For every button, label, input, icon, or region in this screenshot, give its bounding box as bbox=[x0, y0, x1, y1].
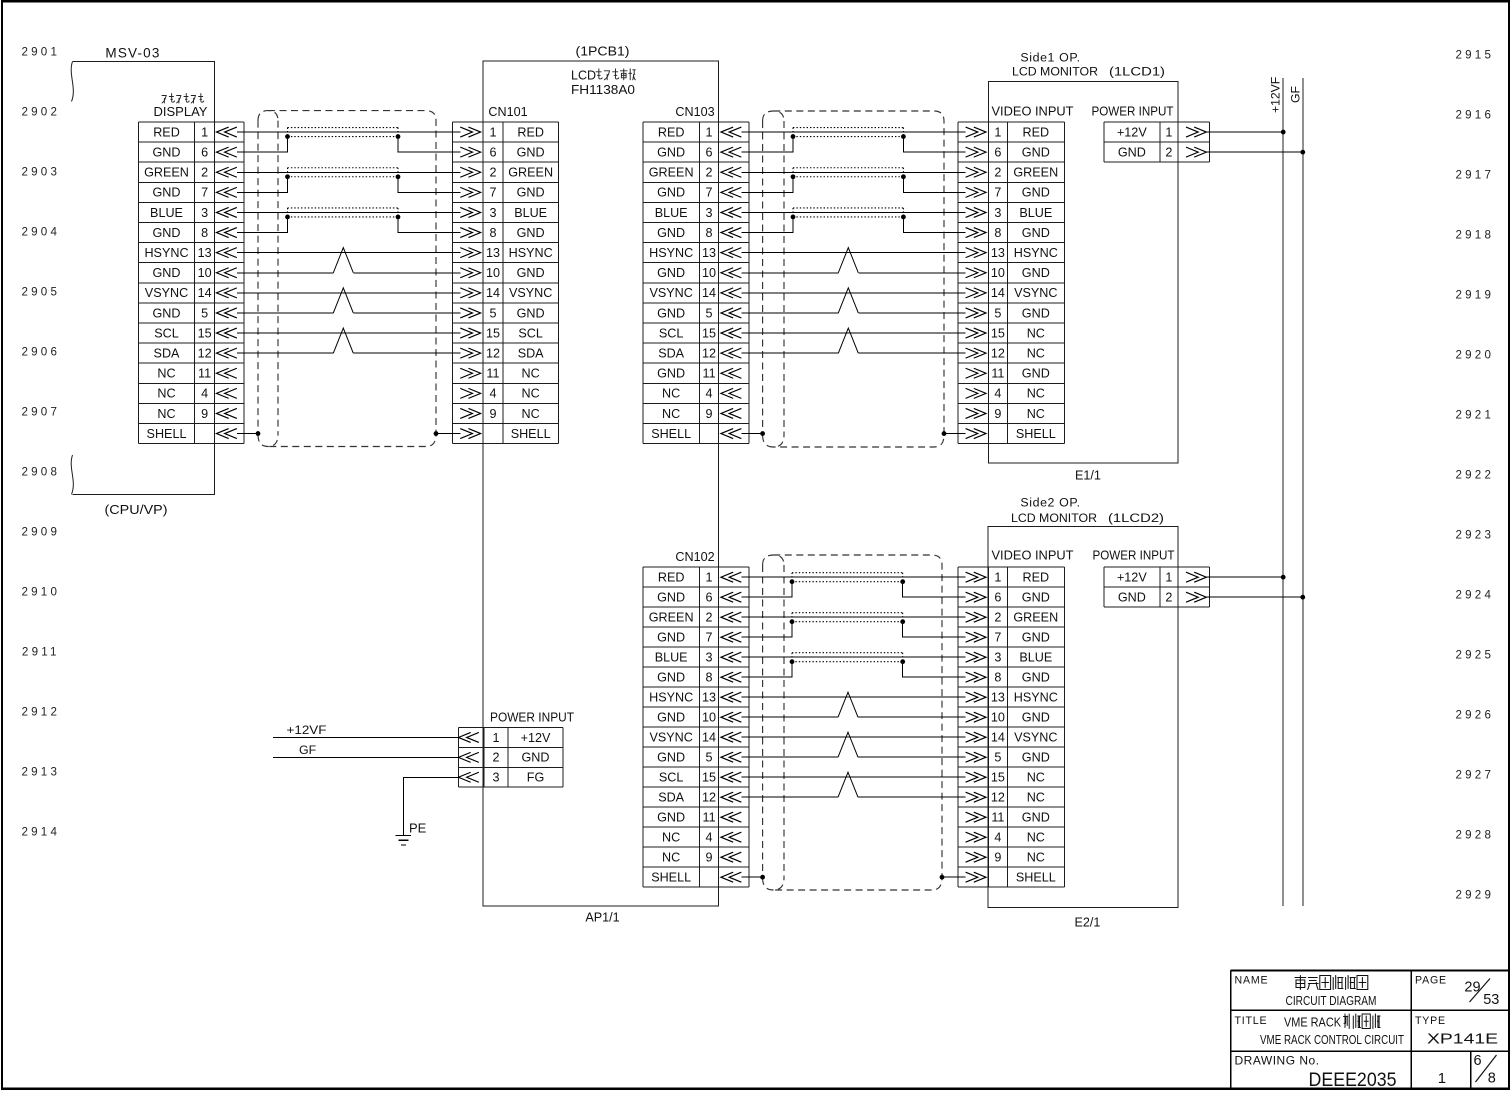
svg-text:2: 2 bbox=[201, 166, 208, 180]
svg-text:VIDEO INPUT: VIDEO INPUT bbox=[992, 104, 1074, 118]
svg-text:VSYNC: VSYNC bbox=[649, 286, 692, 300]
wire SHELL CN102-1LCD2 shell right bbox=[942, 876, 966, 878]
junction GREEN pair CN103-1LCD1 shield right bbox=[901, 174, 906, 179]
svg-text:2903: 2903 bbox=[22, 166, 61, 179]
svg-text:SHELL: SHELL bbox=[147, 427, 187, 441]
svg-text:GF: GF bbox=[299, 743, 317, 757]
svg-text:2904: 2904 bbox=[22, 226, 61, 239]
wire GREEN pair DISPLAY-CN101 signal bbox=[237, 171, 461, 173]
svg-text:7: 7 bbox=[201, 186, 208, 200]
junction BLUE pair CN102-1LCD2 shield left bbox=[790, 659, 795, 664]
svg-text:SHELL: SHELL bbox=[651, 427, 691, 441]
svg-text:12: 12 bbox=[486, 346, 500, 360]
junction GREEN pair CN102-1LCD2 shield right bbox=[900, 619, 905, 624]
junction BLUE pair DISPLAY-CN101 shield right bbox=[396, 215, 401, 220]
svg-text:GND: GND bbox=[517, 145, 545, 159]
junction SHELL CN102-1LCD2 shell-shield left bbox=[760, 875, 765, 880]
junction BLUE pair CN103-1LCD1 shield left bbox=[791, 215, 796, 220]
svg-text:2: 2 bbox=[1165, 145, 1172, 159]
svg-text:VSYNC: VSYNC bbox=[509, 286, 552, 300]
svg-text:GREEN: GREEN bbox=[649, 166, 694, 180]
svg-text:7: 7 bbox=[489, 186, 496, 200]
wire SCL/SDA pair CN103-1LCD1 signal bbox=[741, 332, 965, 334]
svg-text:AP1/1: AP1/1 bbox=[585, 911, 619, 925]
wire VSYNC pair CN102-1LCD2 return with twist symbol bbox=[741, 756, 965, 758]
svg-text:6: 6 bbox=[201, 145, 208, 159]
svg-text:8: 8 bbox=[994, 226, 1001, 240]
wire BLUE pair DISPLAY-CN101 signal bbox=[237, 211, 461, 213]
svg-text:11: 11 bbox=[991, 811, 1004, 825]
wire +12VF into AP1 pin1 bbox=[273, 736, 459, 738]
wire SHELL DISPLAY-CN101 shell left bbox=[237, 433, 258, 435]
svg-text:9: 9 bbox=[706, 407, 713, 421]
svg-text:13: 13 bbox=[486, 246, 500, 260]
connector POWER INPUT on 1LCD2 bbox=[1104, 567, 1210, 607]
svg-text:GREEN: GREEN bbox=[649, 611, 694, 625]
svg-text:GND: GND bbox=[1118, 145, 1146, 159]
twisted pair sheath GREEN pair DISPLAY-CN101 bbox=[288, 168, 399, 177]
connector CN102 on 1PCB1 bbox=[643, 567, 749, 887]
wire GND E2 to GF bus bbox=[1206, 596, 1302, 598]
twisted pair sheath RED pair DISPLAY-CN101 bbox=[288, 128, 399, 137]
svg-text:7: 7 bbox=[706, 186, 713, 200]
svg-text:HSYNC: HSYNC bbox=[144, 246, 188, 260]
wire HSYNC pair CN103-1LCD1 return with twist symbol bbox=[741, 272, 965, 274]
svg-text:NC: NC bbox=[522, 387, 540, 401]
wire RED pair CN103-1LCD1 return (GND) bbox=[741, 137, 965, 153]
svg-text:1: 1 bbox=[1165, 125, 1172, 139]
svg-text:10: 10 bbox=[702, 711, 716, 725]
svg-text:HSYNC: HSYNC bbox=[1014, 246, 1058, 260]
svg-text:NAME: NAME bbox=[1235, 974, 1269, 986]
twisted pair sheath BLUE pair CN102-1LCD2 bbox=[792, 653, 903, 662]
svg-text:GND: GND bbox=[1022, 631, 1050, 645]
svg-text:12: 12 bbox=[702, 791, 716, 805]
svg-text:NC: NC bbox=[522, 407, 540, 421]
svg-text:2901: 2901 bbox=[22, 46, 61, 59]
svg-text:2915: 2915 bbox=[1456, 49, 1495, 62]
ground symbol PE bbox=[396, 835, 412, 845]
svg-text:2906: 2906 bbox=[22, 346, 61, 359]
svg-text:2922: 2922 bbox=[1456, 469, 1495, 482]
cable shield CN102-1LCD2 bbox=[763, 555, 942, 890]
svg-text:2909: 2909 bbox=[22, 526, 61, 539]
svg-text:GND: GND bbox=[1022, 306, 1050, 320]
svg-text:1: 1 bbox=[489, 125, 496, 139]
wire SCL/SDA pair DISPLAY-CN101 signal bbox=[237, 332, 461, 334]
svg-text:NC: NC bbox=[157, 407, 175, 421]
junction BLUE pair CN103-1LCD1 shield right bbox=[901, 215, 906, 220]
svg-text:3: 3 bbox=[201, 206, 208, 220]
svg-text:5: 5 bbox=[201, 306, 208, 320]
wire VSYNC pair CN102-1LCD2 signal bbox=[741, 736, 965, 738]
wire HSYNC pair CN103-1LCD1 signal bbox=[741, 252, 965, 254]
svg-text:6: 6 bbox=[994, 145, 1001, 159]
wire SCL/SDA pair CN102-1LCD2 return with twist symbol bbox=[741, 796, 965, 798]
svg-text:BLUE: BLUE bbox=[150, 206, 183, 220]
wire SHELL CN102-1LCD2 shell left bbox=[741, 876, 762, 878]
svg-text:15: 15 bbox=[991, 771, 1005, 785]
svg-text:PAGE: PAGE bbox=[1415, 974, 1447, 986]
svg-text:2926: 2926 bbox=[1456, 709, 1495, 722]
svg-text:NC: NC bbox=[1027, 387, 1045, 401]
svg-text:2914: 2914 bbox=[22, 826, 61, 839]
svg-text:GND: GND bbox=[517, 226, 545, 240]
svg-text:2: 2 bbox=[489, 166, 496, 180]
svg-text:2929: 2929 bbox=[1456, 889, 1495, 902]
svg-text:2905: 2905 bbox=[22, 286, 61, 299]
wire HSYNC pair DISPLAY-CN101 return with twist symbol bbox=[237, 272, 461, 274]
wire RED pair DISPLAY-CN101 return (GND) bbox=[237, 137, 461, 153]
svg-text:BLUE: BLUE bbox=[1019, 206, 1052, 220]
twisted pair sheath BLUE pair DISPLAY-CN101 bbox=[288, 208, 399, 217]
svg-text:POWER INPUT: POWER INPUT bbox=[1093, 549, 1175, 563]
wire HSYNC pair CN102-1LCD2 return with twist symbol bbox=[741, 716, 965, 718]
svg-text:5: 5 bbox=[994, 306, 1001, 320]
svg-text:10: 10 bbox=[702, 266, 716, 280]
wire SCL/SDA pair CN102-1LCD2 signal bbox=[741, 776, 965, 778]
svg-text:NC: NC bbox=[1027, 791, 1045, 805]
svg-text:NC: NC bbox=[1027, 407, 1045, 421]
wire SCL/SDA pair CN103-1LCD1 return with twist symbol bbox=[741, 352, 965, 354]
svg-text:VSYNC: VSYNC bbox=[1014, 286, 1057, 300]
svg-text:6: 6 bbox=[706, 145, 713, 159]
svg-text:2924: 2924 bbox=[1456, 589, 1495, 602]
svg-text:NC: NC bbox=[1027, 326, 1045, 340]
svg-text:GND: GND bbox=[1022, 226, 1050, 240]
svg-text:LCD MONITOR: LCD MONITOR bbox=[1011, 511, 1097, 525]
svg-text:13: 13 bbox=[702, 691, 716, 705]
cable shield DISPLAY-CN101 bbox=[258, 111, 436, 447]
svg-text:9: 9 bbox=[489, 407, 496, 421]
svg-text:GND: GND bbox=[522, 751, 550, 765]
svg-text:2916: 2916 bbox=[1456, 109, 1495, 122]
junction GREEN pair CN103-1LCD1 shield left bbox=[791, 174, 796, 179]
svg-text:2908: 2908 bbox=[22, 466, 61, 479]
connector POWER INPUT on 1PCB1 (AP1/1) bbox=[458, 728, 563, 788]
svg-text:2918: 2918 bbox=[1456, 229, 1495, 242]
svg-text:SHELL: SHELL bbox=[511, 427, 551, 441]
wire BLUE pair CN102-1LCD2 return (GND) bbox=[741, 662, 965, 678]
svg-text:6: 6 bbox=[1473, 1053, 1481, 1069]
svg-text:2: 2 bbox=[706, 166, 713, 180]
svg-text:SDA: SDA bbox=[518, 346, 544, 360]
svg-text:NC: NC bbox=[1027, 771, 1045, 785]
svg-text:11: 11 bbox=[991, 367, 1004, 381]
svg-text:HSYNC: HSYNC bbox=[509, 246, 553, 260]
svg-text:14: 14 bbox=[198, 286, 212, 300]
svg-text:GREEN: GREEN bbox=[144, 166, 189, 180]
connector POWER INPUT on 1LCD1 bbox=[1104, 122, 1210, 162]
wire BLUE pair CN103-1LCD1 signal bbox=[741, 211, 965, 213]
svg-text:NC: NC bbox=[662, 851, 680, 865]
svg-text:15: 15 bbox=[991, 326, 1005, 340]
wire VSYNC pair DISPLAY-CN101 return with twist symbol bbox=[237, 312, 461, 314]
svg-text:VIDEO INPUT: VIDEO INPUT bbox=[992, 549, 1074, 563]
svg-text:2928: 2928 bbox=[1456, 829, 1495, 842]
junction BLUE pair CN102-1LCD2 shield right bbox=[900, 659, 905, 664]
svg-text:MSV-03: MSV-03 bbox=[105, 46, 160, 61]
svg-text:(1LCD1): (1LCD1) bbox=[1109, 65, 1165, 79]
junction RED pair DISPLAY-CN101 shield right bbox=[396, 134, 401, 139]
svg-text:NC: NC bbox=[157, 367, 175, 381]
svg-text:5: 5 bbox=[489, 306, 496, 320]
svg-text:NC: NC bbox=[1027, 851, 1045, 865]
wire +12V E1 to +12VF bus bbox=[1206, 131, 1283, 133]
svg-text:POWER INPUT: POWER INPUT bbox=[490, 711, 574, 725]
svg-text:GREEN: GREEN bbox=[1013, 166, 1058, 180]
svg-text:8: 8 bbox=[706, 226, 713, 240]
break symbol top-left of MSV-03 bbox=[71, 62, 73, 102]
svg-text:GND: GND bbox=[1118, 591, 1146, 605]
svg-text:11: 11 bbox=[703, 811, 716, 825]
svg-text:10: 10 bbox=[486, 266, 500, 280]
junction SHELL CN103-1LCD1 shell-shield right bbox=[942, 431, 947, 436]
svg-text:GND: GND bbox=[657, 751, 685, 765]
wire GREEN pair CN103-1LCD1 signal bbox=[741, 171, 965, 173]
svg-text:FH1138A0: FH1138A0 bbox=[571, 83, 635, 97]
svg-text:GND: GND bbox=[153, 186, 181, 200]
svg-text:RED: RED bbox=[658, 571, 685, 585]
net GF vertical bus bbox=[1302, 78, 1304, 906]
svg-text:SHELL: SHELL bbox=[1016, 427, 1056, 441]
svg-text:7: 7 bbox=[994, 631, 1001, 645]
svg-text:GND: GND bbox=[657, 631, 685, 645]
svg-text:NC: NC bbox=[662, 407, 680, 421]
svg-text:10: 10 bbox=[198, 266, 212, 280]
junction RED pair DISPLAY-CN101 shield left bbox=[285, 134, 290, 139]
svg-text:SDA: SDA bbox=[658, 791, 684, 805]
svg-text:2919: 2919 bbox=[1456, 289, 1495, 302]
svg-text:2: 2 bbox=[493, 751, 500, 765]
svg-text:GND: GND bbox=[517, 306, 545, 320]
wire BLUE pair CN102-1LCD2 signal bbox=[741, 656, 965, 658]
wire RED pair CN103-1LCD1 signal bbox=[741, 131, 965, 133]
svg-text:XP141E: XP141E bbox=[1427, 1032, 1498, 1048]
svg-text:GND: GND bbox=[657, 266, 685, 280]
wire GREEN pair CN102-1LCD2 signal bbox=[741, 616, 965, 618]
svg-text:GND: GND bbox=[657, 367, 685, 381]
twisted pair sheath GREEN pair CN103-1LCD1 bbox=[793, 168, 903, 177]
svg-text:NC: NC bbox=[1027, 346, 1045, 360]
svg-text:GND: GND bbox=[657, 186, 685, 200]
svg-text:(1LCD2): (1LCD2) bbox=[1108, 511, 1164, 525]
svg-text:+12V: +12V bbox=[1117, 571, 1147, 585]
svg-text:15: 15 bbox=[702, 771, 716, 785]
svg-text:GND: GND bbox=[657, 226, 685, 240]
svg-text:GREEN: GREEN bbox=[1013, 611, 1058, 625]
svg-text:E2/1: E2/1 bbox=[1075, 916, 1101, 930]
net +12VF vertical bus bbox=[1282, 78, 1284, 906]
wire RED pair CN102-1LCD2 return (GND) bbox=[741, 582, 965, 598]
svg-text:GND: GND bbox=[657, 811, 685, 825]
svg-text:15: 15 bbox=[486, 326, 500, 340]
svg-text:NC: NC bbox=[157, 387, 175, 401]
svg-text:2920: 2920 bbox=[1456, 349, 1495, 362]
junction RED pair CN103-1LCD1 shield left bbox=[791, 134, 796, 139]
svg-text:BLUE: BLUE bbox=[514, 206, 547, 220]
svg-text:VSYNC: VSYNC bbox=[145, 286, 188, 300]
wire GREEN pair CN103-1LCD1 return (GND) bbox=[741, 177, 965, 193]
svg-text:1: 1 bbox=[706, 571, 713, 585]
svg-text:4: 4 bbox=[489, 387, 496, 401]
svg-text:13: 13 bbox=[702, 246, 716, 260]
wire VSYNC pair CN103-1LCD1 signal bbox=[741, 292, 965, 294]
svg-text:RED: RED bbox=[1023, 571, 1050, 585]
svg-text:FG: FG bbox=[527, 771, 545, 785]
svg-text:2911: 2911 bbox=[22, 646, 60, 659]
device MSV-03 (CPU/VP) box bbox=[73, 62, 215, 495]
svg-text:GND: GND bbox=[657, 591, 685, 605]
svg-text:6: 6 bbox=[994, 591, 1001, 605]
board (1PCB1) LCD monitor PCB box bbox=[483, 61, 719, 906]
junction +12VF / E2 bbox=[1281, 575, 1286, 580]
junction SHELL DISPLAY-CN101 shell-shield right bbox=[434, 431, 439, 436]
label display (katakana) bbox=[162, 94, 204, 104]
svg-text:GND: GND bbox=[1022, 186, 1050, 200]
svg-text:12: 12 bbox=[991, 791, 1005, 805]
svg-text:GND: GND bbox=[1022, 367, 1050, 381]
wire GREEN pair DISPLAY-CN101 return (GND) bbox=[237, 177, 461, 193]
junction GF / E1 bbox=[1300, 150, 1305, 155]
svg-text:LCD: LCD bbox=[571, 69, 596, 83]
svg-text:Side1 OP.: Side1 OP. bbox=[1020, 50, 1080, 64]
svg-text:14: 14 bbox=[991, 731, 1005, 745]
svg-text:1: 1 bbox=[1438, 1070, 1446, 1087]
svg-text:29: 29 bbox=[1464, 980, 1480, 996]
svg-text:SHELL: SHELL bbox=[651, 871, 691, 885]
svg-text:1: 1 bbox=[201, 125, 208, 139]
junction BLUE pair DISPLAY-CN101 shield left bbox=[285, 215, 290, 220]
svg-text:3: 3 bbox=[706, 651, 713, 665]
svg-text:(1PCB1): (1PCB1) bbox=[576, 43, 630, 58]
svg-text:BLUE: BLUE bbox=[655, 651, 688, 665]
svg-text:15: 15 bbox=[198, 326, 212, 340]
svg-text:13: 13 bbox=[991, 691, 1005, 705]
junction SHELL DISPLAY-CN101 shell-shield left bbox=[256, 431, 261, 436]
svg-text:CN101: CN101 bbox=[488, 105, 527, 119]
svg-text:GND: GND bbox=[1022, 266, 1050, 280]
svg-text:RED: RED bbox=[658, 125, 685, 139]
svg-text:9: 9 bbox=[994, 851, 1001, 865]
svg-text:GND: GND bbox=[1022, 751, 1050, 765]
svg-text:GND: GND bbox=[657, 671, 685, 685]
svg-text:8: 8 bbox=[489, 226, 496, 240]
junction RED pair CN102-1LCD2 shield left bbox=[790, 579, 795, 584]
svg-text:SCL: SCL bbox=[154, 326, 179, 340]
svg-text:E1/1: E1/1 bbox=[1075, 469, 1101, 483]
svg-text:GND: GND bbox=[1022, 711, 1050, 725]
junction GREEN pair DISPLAY-CN101 shield right bbox=[396, 174, 401, 179]
svg-text:SCL: SCL bbox=[659, 771, 684, 785]
svg-text:GND: GND bbox=[657, 306, 685, 320]
svg-text:4: 4 bbox=[994, 831, 1001, 845]
svg-text:2927: 2927 bbox=[1456, 769, 1495, 782]
svg-text:RED: RED bbox=[1023, 125, 1050, 139]
svg-text:PE: PE bbox=[409, 821, 427, 836]
device Side1 OP. LCD MONITOR (1LCD1) box bbox=[989, 81, 1178, 463]
svg-text:2: 2 bbox=[1165, 591, 1172, 605]
svg-text:RED: RED bbox=[153, 125, 180, 139]
svg-text:1: 1 bbox=[994, 125, 1001, 139]
svg-text:2: 2 bbox=[994, 611, 1001, 625]
title block frame bbox=[1231, 970, 1509, 1088]
svg-text:SCL: SCL bbox=[659, 326, 684, 340]
wire RED pair DISPLAY-CN101 signal bbox=[237, 131, 461, 133]
junction GREEN pair DISPLAY-CN101 shield left bbox=[285, 174, 290, 179]
wire BLUE pair CN103-1LCD1 return (GND) bbox=[741, 217, 965, 233]
connector DISPLAY on MSV-03 bbox=[139, 122, 244, 444]
svg-text:GND: GND bbox=[153, 266, 181, 280]
svg-text:2907: 2907 bbox=[22, 406, 61, 419]
svg-text:SDA: SDA bbox=[154, 346, 180, 360]
connector VIDEO INPUT on 1LCD2 bbox=[958, 567, 1064, 887]
svg-text:RED: RED bbox=[517, 125, 544, 139]
svg-text:9: 9 bbox=[201, 407, 208, 421]
svg-text:GND: GND bbox=[1022, 671, 1050, 685]
svg-text:1: 1 bbox=[493, 731, 500, 745]
svg-text:3: 3 bbox=[994, 651, 1001, 665]
connector CN101 on 1PCB1 bbox=[453, 122, 559, 444]
svg-text:53: 53 bbox=[1483, 992, 1499, 1008]
svg-text:8: 8 bbox=[706, 671, 713, 685]
svg-text:+12V: +12V bbox=[521, 731, 551, 745]
wire VSYNC pair CN103-1LCD1 return with twist symbol bbox=[741, 312, 965, 314]
junction +12VF / E1 bbox=[1281, 130, 1286, 135]
svg-text:CN102: CN102 bbox=[675, 550, 714, 564]
svg-text:13: 13 bbox=[198, 246, 212, 260]
svg-text:DRAWING No.: DRAWING No. bbox=[1235, 1054, 1320, 1068]
svg-text:10: 10 bbox=[991, 266, 1005, 280]
svg-text:GND: GND bbox=[657, 711, 685, 725]
title block name (kanji): circuit diagram bbox=[1295, 976, 1368, 990]
twisted pair sheath BLUE pair CN103-1LCD1 bbox=[793, 208, 903, 217]
wire BLUE pair DISPLAY-CN101 return (GND) bbox=[237, 217, 461, 233]
svg-text:BLUE: BLUE bbox=[1019, 651, 1052, 665]
wire SHELL CN103-1LCD1 shell left bbox=[741, 433, 762, 435]
svg-text:14: 14 bbox=[702, 286, 716, 300]
svg-text:1: 1 bbox=[994, 571, 1001, 585]
twisted pair sheath RED pair CN102-1LCD2 bbox=[792, 573, 903, 582]
svg-text:2925: 2925 bbox=[1456, 649, 1495, 662]
svg-text:NC: NC bbox=[662, 831, 680, 845]
svg-text:+12V: +12V bbox=[1117, 125, 1147, 139]
junction GREEN pair CN102-1LCD2 shield left bbox=[790, 619, 795, 624]
wire SCL/SDA pair DISPLAY-CN101 return with twist symbol bbox=[237, 352, 461, 354]
junction RED pair CN102-1LCD2 shield right bbox=[900, 579, 905, 584]
svg-text:2913: 2913 bbox=[22, 766, 61, 779]
svg-text:6: 6 bbox=[706, 591, 713, 605]
svg-text:POWER INPUT: POWER INPUT bbox=[1092, 104, 1174, 118]
svg-text:(CPU/VP): (CPU/VP) bbox=[105, 502, 168, 517]
svg-text:NC: NC bbox=[1027, 831, 1045, 845]
connector CN103 on 1PCB1 bbox=[643, 122, 749, 444]
wire HSYNC pair DISPLAY-CN101 signal bbox=[237, 252, 461, 254]
svg-text:1: 1 bbox=[1165, 571, 1172, 585]
svg-text:LCD MONITOR: LCD MONITOR bbox=[1012, 65, 1098, 79]
device Side2 OP. LCD MONITOR (1LCD2) box bbox=[988, 527, 1178, 908]
svg-text:CN103: CN103 bbox=[675, 105, 714, 119]
svg-text:4: 4 bbox=[706, 387, 713, 401]
svg-text:NC: NC bbox=[662, 387, 680, 401]
connector VIDEO INPUT on 1LCD1 bbox=[958, 122, 1064, 444]
wire +12V E2 to +12VF bus bbox=[1206, 576, 1283, 578]
svg-text:11: 11 bbox=[703, 367, 716, 381]
svg-text:2912: 2912 bbox=[22, 706, 61, 719]
wire GF into AP1 pin2 bbox=[273, 756, 459, 758]
svg-text:6: 6 bbox=[489, 145, 496, 159]
svg-text:7: 7 bbox=[706, 631, 713, 645]
